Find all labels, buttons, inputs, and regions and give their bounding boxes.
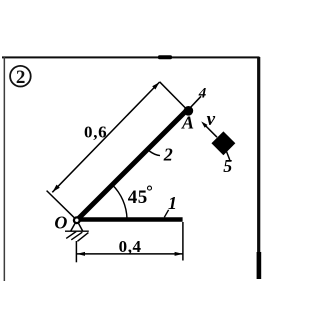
svg-text:1: 1	[168, 193, 177, 213]
svg-text:45: 45	[128, 187, 148, 208]
svg-text:4: 4	[198, 85, 207, 101]
svg-text:2: 2	[163, 145, 173, 165]
svg-text:0,6: 0,6	[84, 123, 107, 142]
svg-text:O: O	[54, 213, 67, 233]
svg-text:A: A	[181, 112, 194, 132]
svg-text:v: v	[207, 109, 216, 130]
svg-text:5: 5	[223, 156, 232, 176]
svg-text:2: 2	[16, 67, 26, 88]
svg-text:0,4: 0,4	[119, 237, 142, 256]
